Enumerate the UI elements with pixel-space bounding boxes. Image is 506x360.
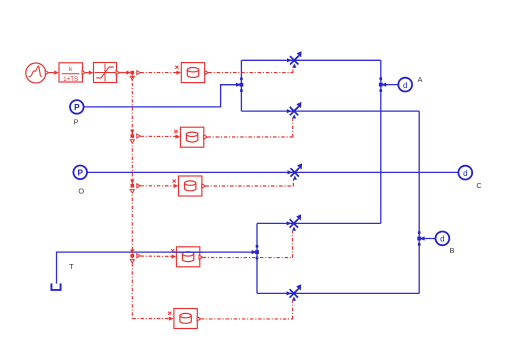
svg-text:P: P [74, 103, 80, 112]
junction: P1 line into bus1 [236, 78, 243, 93]
signal generator source [26, 63, 49, 83]
event link: row3 dash-dot to delay D3 [140, 184, 178, 188]
svg-text:d: d [463, 169, 467, 178]
label T [69, 262, 74, 271]
event link: row1 dash-dot to delay D1 [137, 71, 181, 75]
delay block D2 [174, 127, 207, 147]
event link: row2 dash-dot to delay D2 [140, 135, 180, 139]
delay block D4 [171, 247, 202, 267]
delay block D3 [173, 176, 206, 196]
wire: switch SW4 row horizontal [257, 222, 381, 224]
label C [476, 181, 482, 190]
switch SW2 [287, 102, 302, 119]
label B [450, 246, 455, 255]
event link: main vertical dash-dot x=132.3 [131, 75, 133, 319]
wire: T input line up and right to bus2 [57, 252, 253, 284]
event link: row3 D3 output to switch SW3 control [202, 180, 294, 188]
event link: saturation to junction J0 (solid) [119, 71, 134, 81]
svg-text:1+TS: 1+TS [63, 76, 78, 83]
saturation block [94, 63, 120, 83]
wire: switch SW1 row horizontal [241, 59, 380, 61]
event link: source to transfer function (solid) [49, 71, 59, 75]
wire: switch SW5 row horizontal [257, 292, 419, 294]
event link: row2 D2 output to switch SW2 control [204, 119, 293, 140]
svg-text:B: B [450, 246, 455, 255]
svg-text:P: P [74, 118, 79, 127]
svg-text:d: d [403, 81, 407, 90]
label O [78, 186, 84, 195]
T clock ground symbol [51, 283, 60, 290]
wire: switch SW2 row horizontal [241, 110, 419, 112]
junction: J4 on main event line [130, 249, 140, 263]
input port P1 [70, 100, 84, 114]
delay block D5 [168, 309, 201, 329]
svg-text:k: k [69, 66, 73, 73]
wire: left bus1 vertical [240, 60, 242, 111]
input port P2 (O) [73, 166, 87, 180]
event link: row4 dash-dot to delay D4 [140, 254, 176, 258]
svg-text:P: P [77, 168, 83, 177]
label A [418, 75, 423, 84]
junction: T line into bus2 [252, 245, 259, 260]
delay block D1 [175, 63, 208, 83]
wire: tap to port B [417, 231, 436, 246]
wire: right bus B vertical [418, 111, 420, 293]
switch SW4 [287, 214, 302, 231]
output port B [436, 232, 450, 246]
svg-text:C: C [476, 181, 482, 190]
event link: row1 D1 output to switch SW1 control [205, 66, 293, 75]
event link: row5 dash-dot turn to delay D5 [132, 317, 173, 321]
event link: row4 D4 output to switch SW4 control [199, 231, 293, 259]
junction: J3 on main event line [130, 179, 140, 193]
event link: transfer function to saturation (solid) [86, 71, 94, 75]
wire: right bus A vertical [380, 60, 382, 223]
wire: left bus2 vertical [256, 223, 258, 293]
transfer function block k/(1+TS) [59, 63, 85, 83]
wire: T line overlay across delay D4 [173, 251, 203, 253]
junction: J2 on main event line [130, 130, 140, 144]
switch SW1 [287, 51, 302, 68]
svg-text:O: O [78, 186, 84, 195]
switch SW5 [287, 284, 302, 301]
svg-text:d: d [440, 235, 444, 244]
wire: tap to port A [379, 77, 399, 92]
label P [74, 118, 79, 127]
output port C [458, 166, 472, 180]
event link: row5 D5 output to switch SW5 control [197, 301, 292, 321]
wire: P input port P1 line to bus1 [84, 85, 238, 107]
svg-text:T: T [69, 262, 74, 271]
output port A [398, 78, 412, 92]
switch SW3 [288, 163, 303, 180]
svg-text:A: A [418, 75, 423, 84]
wire: O input line to switch SW3 row and port C [87, 171, 459, 173]
